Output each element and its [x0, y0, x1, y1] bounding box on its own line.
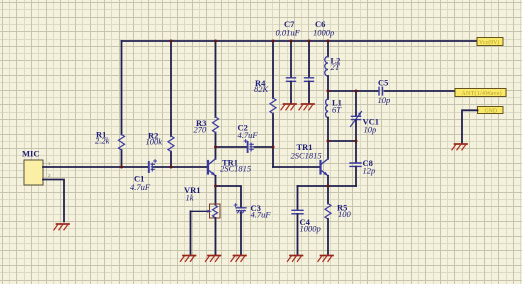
svg-text:82K: 82K: [254, 84, 270, 94]
capacitor C4 (1000p): [292, 186, 321, 255]
junction (309,41): [308, 40, 311, 43]
capacitor C3 (4.7uF polarized): [234, 203, 271, 220]
wire: collector node to C2: [216, 146, 247, 148]
wire: VR1 bottom to ground: [215, 218, 217, 255]
inductor L1 (6T): [326, 98, 343, 118]
potentiometer VR1 (1k): [184, 185, 220, 218]
resistor R2: [146, 41, 175, 167]
wire: collector link: [328, 140, 356, 142]
svg-text:2SC1815: 2SC1815: [220, 164, 251, 174]
microphone MIC: [22, 149, 51, 186]
svg-text:ANT(1/4Wave): ANT(1/4Wave): [462, 90, 502, 97]
junction (328,91): [327, 90, 330, 93]
wire: tap to VC1: [355, 91, 357, 116]
port ANT: [455, 89, 506, 97]
resistor R3: [194, 41, 219, 159]
inductor L2 (2T): [325, 41, 341, 76]
junction (356,91): [355, 90, 358, 93]
svg-text:2T: 2T: [331, 62, 341, 72]
resistor R1: [95, 41, 125, 167]
variable capacitor VC1 (10p): [351, 112, 380, 135]
junction (171,167): [170, 166, 173, 169]
ground (C7): [281, 104, 296, 110]
wire: TR1 emitter down: [215, 176, 217, 204]
transistor TR1 (first stage 2SC1815): [208, 158, 251, 176]
svg-text:4.7uF: 4.7uF: [130, 182, 151, 192]
svg-text:MIC: MIC: [22, 149, 39, 159]
junction (291,41): [290, 40, 293, 43]
capacitor C2 (4.7uF polarized, series): [238, 123, 259, 153]
wire: TR2 emitter down: [327, 176, 329, 186]
wire: C5 to ANT port: [385, 90, 456, 92]
ground (below MIC): [54, 224, 69, 230]
capacitor C1 (4.7uF polarized, series): [130, 160, 157, 192]
svg-text:100: 100: [338, 209, 352, 219]
wire: top supply bus: [122, 40, 478, 42]
svg-text:4.7uF: 4.7uF: [238, 130, 259, 140]
resistor R4: [254, 41, 276, 167]
port Vcc: [477, 38, 503, 46]
port GND: [478, 107, 504, 115]
junction (328,186): [327, 185, 330, 188]
svg-text:1k: 1k: [186, 193, 194, 203]
svg-text:GND: GND: [485, 108, 498, 114]
wire: VC1 to collector link: [355, 120, 357, 163]
junction (215.5,147): [214, 146, 217, 149]
wire: L1 to TR2 collector: [327, 118, 329, 159]
capacitor C5 (10p series): [378, 78, 391, 106]
svg-text:1000p: 1000p: [313, 28, 334, 38]
wire: emitter node to C3: [216, 186, 242, 208]
svg-text:100k: 100k: [146, 137, 163, 147]
wire: MIC pin 1 to C1: [43, 166, 149, 168]
svg-text:270: 270: [194, 125, 208, 135]
transistor TR1 (second stage 2SC1815): [291, 142, 329, 176]
junction (171,41): [170, 40, 173, 43]
ground (C6): [299, 104, 314, 110]
junction (215.5,41): [214, 40, 217, 43]
ground (C4): [287, 256, 302, 262]
junction (328,141): [327, 140, 330, 143]
wire: tank tap to C5: [328, 90, 378, 92]
wire: L2 to tap: [327, 76, 329, 99]
resistor R5 (100): [325, 186, 352, 255]
wire: C3 to ground: [240, 213, 242, 256]
wire: C2 to R4 line: [255, 146, 274, 148]
ground (R5): [318, 256, 333, 262]
junction (121.5,167): [120, 166, 123, 169]
wire: MIC pin 2 to ground: [43, 180, 64, 222]
svg-text:2SC1815: 2SC1815: [291, 151, 322, 161]
junction (215.5,186): [214, 185, 217, 188]
junction (328,41): [327, 40, 330, 43]
svg-text:Vcc(9V): Vcc(9V): [479, 39, 499, 46]
capacitor C6 (1000p): [305, 19, 335, 104]
svg-text:2.2k: 2.2k: [95, 136, 110, 146]
svg-text:12p: 12p: [363, 166, 376, 176]
ground (C3): [231, 256, 246, 262]
capacitor C8 (12p): [350, 158, 375, 176]
junction (356,141): [355, 140, 358, 143]
capacitor C7 (0.01uF): [276, 19, 301, 104]
wire: R4 node to TR2 base: [273, 166, 320, 168]
svg-text:10p: 10p: [364, 125, 377, 135]
svg-text:C5: C5: [378, 78, 388, 88]
junction (273,147): [272, 146, 275, 149]
wire: GND port to ground: [462, 110, 478, 143]
svg-text:10p: 10p: [378, 95, 391, 105]
svg-text:0.01uF: 0.01uF: [276, 28, 301, 38]
ground (VR1 wiper): [180, 256, 195, 262]
svg-text:6T: 6T: [332, 105, 342, 115]
ground (VR1 bottom): [205, 256, 220, 262]
svg-text:1000p: 1000p: [300, 224, 321, 234]
svg-text:4.7uF: 4.7uF: [251, 210, 272, 220]
wire: C8 to emitter node: [355, 167, 357, 186]
wire: emitter node: [298, 185, 357, 187]
junction (273,41): [272, 40, 275, 43]
ground (GND port): [452, 144, 467, 150]
wire: VR1 wiper to ground: [190, 211, 192, 255]
wire: C1 to TR1 base: [154, 166, 208, 168]
